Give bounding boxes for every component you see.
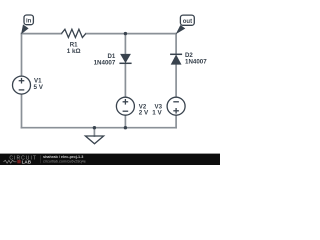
svg-text:LAB: LAB: [22, 159, 32, 164]
svg-text:1 V: 1 V: [152, 109, 162, 116]
svg-text:out: out: [183, 19, 192, 25]
svg-text:1N4007: 1N4007: [94, 59, 116, 66]
svg-text:5 V: 5 V: [34, 84, 44, 91]
svg-text:2 V: 2 V: [139, 109, 149, 116]
svg-text:circuitlab.com/cu6v28q4e: circuitlab.com/cu6v28q4e: [43, 159, 86, 163]
svg-text:shahrab / elec-proj-1.3: shahrab / elec-proj-1.3: [43, 155, 83, 159]
svg-text:1N4007: 1N4007: [185, 58, 207, 65]
svg-text:in: in: [26, 18, 32, 24]
svg-text:1 kΩ: 1 kΩ: [67, 48, 81, 55]
